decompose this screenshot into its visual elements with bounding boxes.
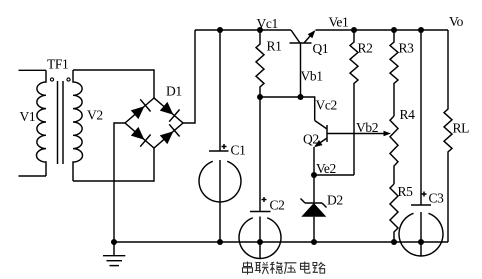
secondary winding V2 bbox=[73, 70, 83, 181]
diode D1d (bottom to right) bbox=[160, 131, 174, 144]
wire input stub bottom-left bbox=[19, 175, 47, 177]
ground bbox=[103, 242, 125, 266]
svg-text:R4: R4 bbox=[400, 107, 416, 122]
svg-text:Vo: Vo bbox=[449, 14, 464, 29]
char 稳 bbox=[270, 262, 283, 274]
svg-text:C3: C3 bbox=[429, 191, 445, 206]
wire V2 top to bridge bbox=[73, 70, 154, 98]
svg-text:Q2: Q2 bbox=[303, 132, 319, 147]
char 联 bbox=[255, 262, 269, 274]
svg-text:Vb2: Vb2 bbox=[356, 120, 378, 135]
svg-text:Vc2: Vc2 bbox=[316, 98, 337, 113]
resistor R2 bbox=[350, 30, 358, 175]
junction R3 top rail bbox=[391, 27, 397, 33]
svg-text:Ve1: Ve1 bbox=[329, 15, 349, 30]
junction C2 ground rail bbox=[257, 239, 263, 245]
svg-text:V1: V1 bbox=[20, 109, 36, 124]
junction C1 top rail bbox=[217, 27, 223, 33]
caption chinese text 串联稳压电路 (drawn strokes) bbox=[243, 262, 326, 275]
resistor R1 bbox=[256, 30, 264, 97]
diode D1c (left to bottom) bbox=[131, 127, 145, 140]
svg-text:Vb1: Vb1 bbox=[301, 69, 323, 84]
transistor Q2 bbox=[314, 121, 327, 176]
capacitor C1 bbox=[199, 30, 241, 242]
transformer TF1 bbox=[36, 70, 82, 181]
wire Q2 base to R4 wiper bbox=[327, 133, 384, 135]
char 串 bbox=[243, 262, 253, 275]
wire Vb1 node bbox=[260, 97, 315, 121]
svg-text:R2: R2 bbox=[358, 41, 373, 56]
primary winding V1 bbox=[36, 70, 46, 176]
char 压 bbox=[284, 263, 296, 274]
phase dot right bbox=[67, 78, 70, 81]
svg-text:C1: C1 bbox=[231, 143, 246, 158]
zener diode D2 bbox=[301, 175, 327, 242]
svg-text:R5: R5 bbox=[398, 184, 414, 199]
resistor RL bbox=[444, 30, 452, 242]
svg-text:V2: V2 bbox=[87, 108, 103, 123]
wire top rail right segment bbox=[316, 29, 449, 31]
junction D2 ground rail bbox=[311, 239, 317, 245]
diamond edges bbox=[125, 98, 183, 148]
svg-text:C2: C2 bbox=[270, 198, 285, 213]
junction node Ve2 bbox=[311, 172, 317, 178]
R4 wiper arrow bbox=[384, 131, 392, 136]
svg-text:R1: R1 bbox=[267, 39, 282, 54]
potentiometer R4 bbox=[390, 116, 398, 184]
svg-text:RL: RL bbox=[453, 121, 470, 136]
capacitor C3 bbox=[399, 30, 443, 256]
junction C3 ground rail bbox=[418, 239, 424, 245]
junction Q1 base (node Vb1) bbox=[298, 94, 304, 100]
resistor R5 bbox=[390, 184, 398, 242]
wire bridge right corner to top rail bbox=[183, 30, 195, 123]
svg-text:D1: D1 bbox=[166, 84, 182, 99]
char 电 bbox=[301, 262, 310, 274]
wire bottom ground rail bbox=[114, 241, 448, 243]
svg-text:Ve2: Ve2 bbox=[316, 161, 336, 176]
junction R1-C2 (node Vb1 wire) bbox=[257, 94, 263, 100]
resistor R3 bbox=[390, 30, 398, 116]
diode D1b (top to right) bbox=[160, 102, 174, 115]
junction R5 ground rail bbox=[391, 239, 397, 245]
wire top rail left segment bbox=[195, 29, 291, 31]
wire input stub top-left bbox=[19, 69, 47, 71]
svg-text:R3: R3 bbox=[399, 41, 415, 56]
phase dot left bbox=[50, 78, 53, 81]
wire bridge left corner to ground rail bbox=[114, 123, 125, 242]
svg-text:D2: D2 bbox=[327, 193, 343, 208]
junction R2 top rail (node Ve1) bbox=[351, 27, 357, 33]
diode D1a (left to top) bbox=[131, 106, 145, 119]
transistor Q1 bbox=[290, 30, 316, 97]
junction node Vc1 bbox=[257, 27, 263, 33]
core line 2 bbox=[62, 81, 64, 164]
capacitor C2 bbox=[239, 97, 281, 259]
char 路 bbox=[313, 262, 326, 273]
svg-text:TF1: TF1 bbox=[47, 57, 68, 72]
wire Ve2 node to R2 bbox=[314, 174, 354, 176]
svg-text:Q1: Q1 bbox=[313, 41, 329, 56]
junction C3 top rail bbox=[418, 27, 424, 33]
core line 1 bbox=[57, 81, 59, 164]
junction C1 ground rail bbox=[217, 239, 223, 245]
bridge rectifier D1 bbox=[125, 98, 183, 148]
wire V2 bottom to bridge bbox=[73, 148, 154, 181]
junction ground rail left bbox=[111, 239, 117, 245]
